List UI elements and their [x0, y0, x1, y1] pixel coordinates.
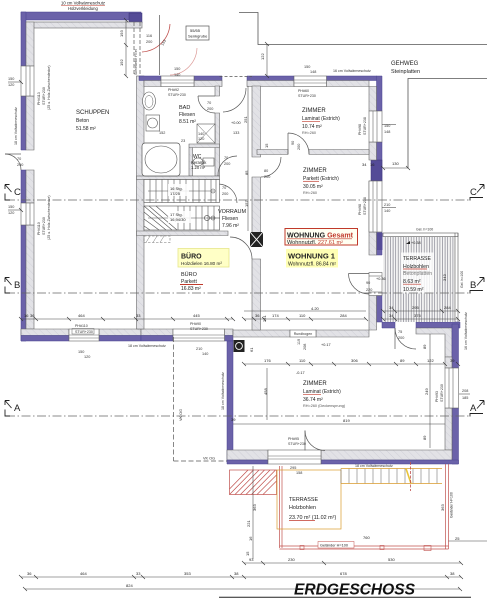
lower room south wall purple [227, 460, 459, 464]
svg-text:176: 176 [264, 358, 271, 363]
svg-text:38: 38 [450, 571, 455, 576]
house east wall gray [369, 87, 377, 331]
svg-text:34: 34 [362, 162, 367, 167]
svg-text:353: 353 [184, 571, 191, 576]
svg-text:200: 200 [398, 336, 404, 340]
svg-text:363: 363 [440, 504, 445, 511]
red terrace border left [279, 466, 281, 548]
svg-text:464: 464 [78, 313, 85, 318]
svg-text:STUR+230: STUR+230 [440, 384, 444, 402]
red gate arc courtyard [142, 24, 170, 52]
svg-text:Geländer H=100: Geländer H=100 [450, 492, 454, 518]
svg-text:+0.36: +0.36 [376, 277, 386, 281]
svg-text:343: 343 [442, 274, 447, 281]
svg-text:PH#95: PH#95 [288, 437, 299, 441]
svg-text:678: 678 [340, 571, 347, 576]
svg-text:17/25: 17/25 [170, 191, 181, 196]
svg-text:Rundbogen: Rundbogen [294, 332, 313, 336]
svg-text:STUR+230: STUR+230 [42, 217, 46, 235]
svg-text:VK OG: VK OG [203, 457, 215, 461]
house north wall gray [144, 81, 369, 87]
svg-text:157: 157 [244, 200, 249, 207]
svg-text:WOHNUNG 1: WOHNUNG 1 [288, 252, 336, 261]
wc door arc [218, 156, 237, 176]
svg-text:210: 210 [384, 203, 390, 207]
svg-text:140: 140 [174, 73, 180, 77]
big stair treads bottom [341, 469, 437, 484]
svg-text:148: 148 [384, 130, 390, 134]
svg-text:174: 174 [272, 313, 279, 318]
buero yellow label [178, 249, 229, 268]
svg-text:18 cm Vollwärmeschutz: 18 cm Vollwärmeschutz [128, 344, 166, 348]
svg-text:A: A [14, 403, 21, 414]
svg-text:200: 200 [297, 144, 301, 150]
svg-text:8.51 m²: 8.51 m² [179, 119, 196, 125]
inner wall W2 between zimmer rooms [257, 150, 369, 155]
schuppen bottom wall gray [21, 329, 141, 336]
window east 1 [369, 111, 382, 142]
svg-text:BAD: BAD [179, 105, 190, 111]
house east wall purple [377, 76, 383, 322]
entry door dashes + arc [220, 76, 253, 78]
svg-text:BÜRO: BÜRO [181, 271, 198, 278]
svg-text:STUR+238: STUR+238 [363, 117, 367, 135]
lower-right east wall gray [445, 357, 452, 450]
section markers [5, 185, 484, 417]
schuppen top wall purple [21, 12, 141, 20]
svg-text:Steinplatten: Steinplatten [391, 69, 420, 75]
left window dims [8, 81, 21, 83]
svg-text:89: 89 [422, 344, 427, 349]
house north wall purple [139, 76, 377, 81]
door arc south wall lower room [305, 431, 325, 451]
svg-text:89: 89 [400, 358, 405, 363]
svg-text:GEHWEG: GEHWEG [391, 61, 419, 67]
svg-text:Senkgrube: Senkgrube [188, 34, 208, 39]
red pipe dashed [410, 462, 412, 491]
svg-text:TERRASSE: TERRASSE [289, 497, 318, 503]
svg-text:18 cm Vollwärmeschutz: 18 cm Vollwärmeschutz [355, 464, 393, 468]
svg-text:A: A [470, 403, 477, 414]
svg-text:119: 119 [297, 339, 301, 345]
svg-text:70: 70 [17, 157, 21, 161]
svg-text:Geländer H=100: Geländer H=100 [320, 544, 348, 548]
svg-text:(25 u. Holz-Zwischendecke): (25 u. Holz-Zwischendecke) [47, 195, 51, 240]
schuppen left wall gray [26, 22, 34, 329]
svg-text:RH=260 (Deckensprung): RH=260 (Deckensprung) [303, 404, 346, 408]
svg-text:Gel. h=100: Gel. h=100 [460, 271, 464, 288]
bad door arc [198, 96, 215, 113]
house west wall gray [137, 76, 145, 329]
svg-text:148: 148 [310, 70, 316, 74]
boundary line top right [239, 13, 487, 45]
svg-text:16.83 m²: 16.83 m² [181, 286, 201, 292]
dim row above middle wall [21, 318, 233, 320]
window schuppen left 2 [21, 203, 34, 225]
svg-text:90: 90 [291, 141, 295, 145]
svg-text:200: 200 [224, 162, 230, 166]
svg-text:61: 61 [249, 347, 254, 352]
svg-text:110: 110 [299, 313, 306, 318]
svg-text:249: 249 [424, 388, 429, 395]
svg-text:VK OG: VK OG [179, 409, 183, 421]
svg-text:464: 464 [80, 571, 87, 576]
svg-text:363: 363 [252, 504, 257, 511]
svg-text:4.20: 4.20 [311, 306, 320, 311]
svg-text:WOHNUNG Gesamt: WOHNUNG Gesamt [287, 231, 353, 240]
svg-text:140: 140 [202, 352, 208, 356]
svg-text:140: 140 [384, 209, 390, 213]
stair upper flight [144, 180, 220, 203]
house east wall window pier dark [371, 160, 382, 181]
lower room south wall gray [227, 450, 452, 460]
svg-text:90: 90 [366, 281, 370, 285]
svg-text:210: 210 [196, 347, 202, 351]
svg-text:PH#98: PH#98 [358, 204, 362, 215]
svg-text:120: 120 [84, 355, 90, 359]
svg-text:458: 458 [263, 388, 268, 395]
svg-text:150: 150 [304, 65, 310, 69]
svg-text:150: 150 [8, 77, 14, 81]
svg-text:ZIMMER: ZIMMER [302, 108, 326, 114]
svg-text:TERRASSE: TERRASSE [403, 256, 432, 262]
svg-text:55/55: 55/55 [190, 28, 201, 33]
svg-text:51.58 m²: 51.58 m² [76, 126, 96, 132]
bath tub [142, 143, 180, 176]
inner wall W1 vertical [252, 86, 261, 330]
schuppen bottom wall purple [21, 336, 141, 342]
svg-text:10 cm Vollwärmeschutz: 10 cm Vollwärmeschutz [61, 1, 105, 6]
window schuppen left 1 [21, 66, 34, 96]
svg-text:BÜRO: BÜRO [181, 252, 202, 261]
svg-text:16 cm Vollwärmeschutz: 16 cm Vollwärmeschutz [333, 69, 371, 73]
window schuppen bottom [69, 329, 99, 341]
washing machine [146, 115, 160, 131]
svg-text:200: 200 [264, 175, 270, 179]
svg-text:STUR+230: STUR+230 [190, 327, 208, 331]
wall above buero [137, 231, 229, 236]
gelaender label box [318, 542, 354, 549]
svg-text:70: 70 [224, 156, 228, 160]
svg-text:116: 116 [146, 34, 152, 38]
lower-right room north wall purple along terrace [382, 322, 460, 328]
red posts on bottom rail [300, 546, 304, 550]
wall under tub/wc [137, 176, 220, 180]
window bad north [161, 76, 194, 87]
svg-text:10.74 m²: 10.74 m² [302, 124, 322, 130]
svg-text:PH#110: PH#110 [75, 324, 88, 328]
svg-text:133: 133 [233, 131, 239, 135]
svg-text:Gel. h=100: Gel. h=100 [416, 228, 433, 232]
svg-text:STUR+230: STUR+230 [75, 330, 93, 334]
svg-text:16: 16 [248, 536, 253, 541]
red terrace border bottom [280, 545, 449, 547]
svg-text:Fliesen: Fliesen [179, 112, 195, 118]
svg-text:ZIMMER: ZIMMER [303, 381, 327, 387]
svg-text:152: 152 [159, 131, 165, 135]
window zimmer north [294, 76, 327, 87]
stair winder treads [144, 206, 177, 230]
svg-text:70: 70 [222, 186, 226, 190]
svg-text:200: 200 [146, 40, 152, 44]
middle dividing wall gray (y330) [233, 330, 369, 337]
svg-text:200: 200 [17, 163, 23, 167]
shower [197, 124, 215, 143]
svg-text:VORRAUM: VORRAUM [218, 209, 247, 215]
ph labels [14, 49, 468, 468]
svg-text:36.74 m²: 36.74 m² [303, 397, 323, 403]
red underlines for floor types [302, 121, 321, 394]
stair label patches [168, 184, 189, 196]
lower room north door arc [395, 328, 416, 349]
svg-text:Holzbohlen: Holzbohlen [289, 505, 316, 511]
svg-text:ERDGESCHOSS: ERDGESCHOSS [294, 582, 415, 599]
svg-text:C: C [14, 187, 21, 198]
svg-text:PH#110: PH#110 [37, 222, 41, 235]
svg-text:STUR+230: STUR+230 [168, 93, 186, 97]
terrace corner pier [377, 233, 383, 250]
svg-text:158: 158 [296, 471, 302, 475]
terrace door arc [349, 274, 370, 295]
dim row inside lower room [244, 363, 445, 365]
svg-text:230: 230 [288, 557, 295, 562]
svg-text:200: 200 [222, 192, 228, 196]
svg-text:STUR+230: STUR+230 [42, 87, 46, 105]
svg-text:18 cm Vollwärmeschutz: 18 cm Vollwärmeschutz [221, 372, 225, 410]
red stair left [230, 470, 277, 495]
orange rect [277, 470, 341, 529]
schiebetor dashed [134, 22, 140, 75]
svg-text:STUR+230: STUR+230 [298, 94, 316, 98]
stove block [234, 340, 245, 352]
red terrace border right [445, 464, 447, 549]
buero door arc [230, 237, 252, 259]
svg-text:208: 208 [462, 389, 468, 393]
stair walk lines [148, 190, 214, 192]
svg-text:75: 75 [398, 330, 402, 334]
svg-text:39: 39 [231, 417, 236, 422]
svg-text:7.96 m²: 7.96 m² [222, 223, 239, 229]
svg-text:295: 295 [412, 305, 419, 310]
terrace door east [369, 273, 382, 296]
svg-text:Holzdielen 16.80 m²: Holzdielen 16.80 m² [181, 261, 222, 266]
svg-text:30.05 m²: 30.05 m² [303, 184, 323, 190]
svg-text:140: 140 [198, 132, 204, 136]
svg-text:110: 110 [299, 358, 306, 363]
sink [143, 92, 156, 110]
svg-text:284: 284 [340, 313, 347, 318]
svg-text:RH=260: RH=260 [303, 191, 317, 195]
lower room west wall purple [227, 341, 233, 462]
wohnung gesamt box [285, 229, 358, 246]
svg-text:375: 375 [414, 313, 421, 318]
bottom rows [244, 562, 461, 564]
window buero bottom [173, 329, 225, 341]
svg-text:+0.38: +0.38 [411, 241, 421, 245]
dashed wardrobe box buero [144, 236, 170, 243]
buero bottom wall gray [141, 329, 233, 336]
svg-text:70: 70 [207, 101, 211, 105]
zimmer3005 door arc [261, 157, 281, 177]
terrasse bottom text [289, 497, 336, 521]
svg-text:16,94/30: 16,94/30 [170, 217, 186, 222]
lower-right corner gray L [416, 328, 452, 357]
red gate arc lower [170, 48, 197, 75]
svg-text:PH#98: PH#98 [358, 124, 362, 135]
svg-text:Beton: Beton [76, 118, 89, 124]
schuppen top wall pier dark [129, 13, 142, 23]
gate leaf line [159, 15, 161, 75]
svg-text:23.70 m² (11.02 m²): 23.70 m² (11.02 m²) [289, 515, 336, 521]
svg-text:306: 306 [351, 358, 358, 363]
svg-text:PH#93: PH#93 [435, 391, 439, 402]
svg-text:-0.17: -0.17 [296, 371, 305, 375]
svg-text:25: 25 [455, 536, 460, 541]
svg-text:220: 220 [366, 288, 372, 292]
vorraum door arc [218, 184, 237, 203]
svg-text:15: 15 [264, 143, 269, 148]
svg-text:208: 208 [303, 344, 307, 350]
svg-text:Holzverkleidung: Holzverkleidung [68, 6, 98, 11]
svg-text:150: 150 [8, 205, 14, 209]
svg-text:93: 93 [249, 557, 254, 562]
window east 2 [369, 181, 382, 232]
svg-text:824: 824 [126, 583, 133, 588]
svg-text:530: 530 [388, 557, 395, 562]
svg-text:38: 38 [234, 571, 239, 576]
+0.38 flag [411, 241, 421, 245]
svg-text:PH#92: PH#92 [168, 88, 179, 92]
svg-text:192: 192 [119, 59, 124, 66]
svg-text:120: 120 [8, 83, 14, 87]
svg-text:120: 120 [8, 211, 14, 215]
svg-text:SCHUPPEN: SCHUPPEN [76, 110, 109, 116]
rundbogen label box [290, 330, 316, 337]
svg-text:16 cm Vollwärmeschutz: 16 cm Vollwärmeschutz [464, 312, 468, 350]
buero bottom wall purple [141, 336, 233, 342]
svg-text:36: 36 [255, 313, 260, 318]
wc walls [189, 144, 220, 176]
svg-text:+0.17: +0.17 [321, 343, 331, 347]
svg-text:284: 284 [444, 305, 451, 310]
terrace text [403, 256, 432, 293]
svg-text:C: C [470, 187, 477, 198]
door schuppen west arc [5, 154, 21, 170]
svg-text:PH#113: PH#113 [37, 92, 41, 105]
svg-text:193: 193 [119, 30, 124, 37]
svg-text:PH#90: PH#90 [190, 322, 201, 326]
plus level flags [231, 121, 386, 375]
svg-text:ZIMMER: ZIMMER [303, 168, 327, 174]
wohnung 1 box [286, 249, 338, 268]
svg-text:760: 760 [363, 535, 370, 540]
svg-text:150: 150 [174, 67, 180, 71]
svg-text:15: 15 [245, 551, 250, 556]
svg-text:16: 16 [24, 313, 29, 318]
svg-text:819: 819 [343, 418, 350, 423]
schuppen left wall purple [21, 12, 26, 341]
zimmer1074 door arc [288, 133, 309, 154]
svg-text:STUR+238: STUR+238 [363, 197, 367, 215]
svg-text:120: 120 [198, 137, 204, 141]
window south lower room [268, 450, 321, 464]
svg-text:251: 251 [243, 116, 248, 123]
svg-text:33: 33 [136, 313, 141, 318]
svg-text:295: 295 [290, 466, 296, 470]
svg-text:STUR+230: STUR+230 [288, 442, 306, 446]
svg-text:89: 89 [422, 435, 427, 440]
svg-text:Schiebetor H=el: Schiebetor H=el [134, 49, 138, 75]
svg-text:85: 85 [244, 170, 249, 175]
svg-text:PH#60: PH#60 [298, 89, 309, 93]
svg-text:251: 251 [262, 315, 267, 322]
svg-text:16: 16 [370, 162, 375, 167]
svg-text:1.20 m²: 1.20 m² [191, 165, 206, 170]
schuppen top wall inner gray [26, 22, 142, 28]
wc toilet [203, 158, 214, 166]
svg-text:36: 36 [27, 571, 32, 576]
svg-text:23: 23 [181, 139, 185, 143]
svg-text:Fliesen: Fliesen [222, 216, 238, 222]
svg-text:200: 200 [207, 107, 213, 111]
svg-text:B: B [470, 280, 476, 291]
svg-text:221: 221 [246, 520, 251, 527]
bad east wall [215, 86, 220, 176]
svg-text:RH=260: RH=260 [302, 131, 316, 135]
svg-text:122: 122 [260, 53, 265, 60]
svg-text:B: B [14, 280, 20, 291]
svg-text:130: 130 [392, 161, 399, 166]
chimney block [250, 232, 263, 247]
svg-text:445: 445 [193, 313, 200, 318]
svg-text:80: 80 [264, 169, 268, 173]
svg-text:185: 185 [462, 396, 468, 400]
svg-text:39: 39 [450, 358, 455, 363]
gehweg neighbour paving rectangle [408, 79, 487, 169]
svg-text:33: 33 [136, 571, 141, 576]
svg-text:18 cm Vollwärmeschutz: 18 cm Vollwärmeschutz [14, 107, 18, 145]
svg-text:122: 122 [427, 358, 434, 363]
lower-right east wall purple [452, 324, 459, 464]
svg-text:+0.00: +0.00 [231, 121, 241, 125]
svg-text:150: 150 [78, 350, 84, 354]
stair lower flight [144, 206, 220, 230]
svg-text:10.59 m²: 10.59 m² [403, 287, 424, 293]
svg-text:Wohnnutzfl. 86.84 m²: Wohnnutzfl. 86.84 m² [288, 262, 336, 268]
svg-text:(25 u. Holz-Zwischendecke): (25 u. Holz-Zwischendecke) [47, 65, 51, 110]
window east lower [445, 368, 459, 408]
